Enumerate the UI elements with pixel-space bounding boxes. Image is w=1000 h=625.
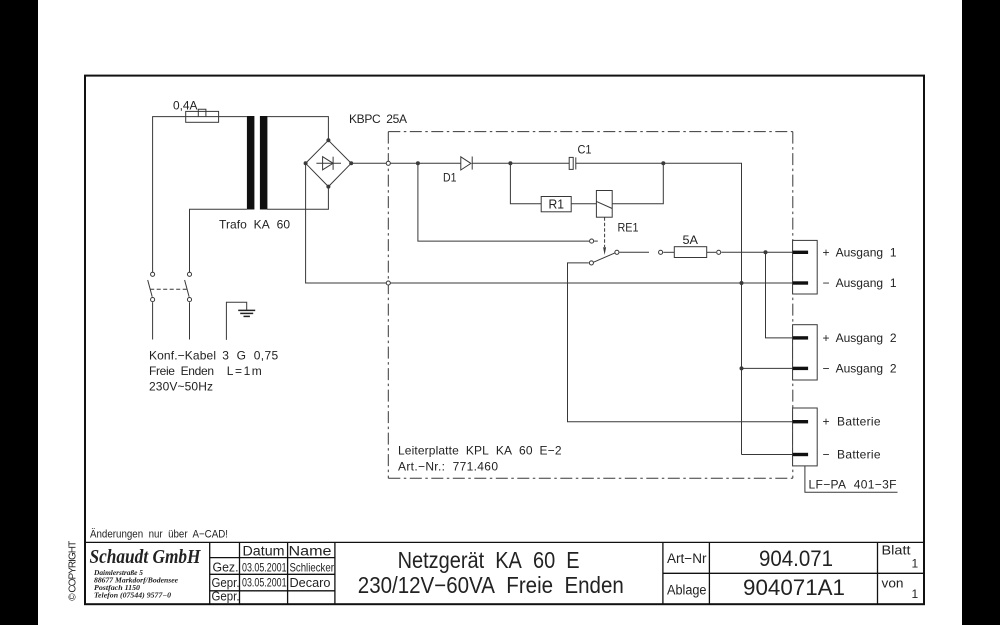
terminal pin minus Ausgang 1: [793, 281, 809, 284]
PCB terminal circle minus rail: [386, 281, 390, 285]
diode D1 triangle: [461, 157, 471, 170]
capacitor C1 left plate: [569, 157, 573, 169]
wire: plus node down to plus Ausgang 2: [766, 252, 793, 338]
PCB terminal circle plus input: [386, 161, 390, 165]
terminal block 3 body: [793, 408, 818, 466]
svg-text:3 G 0,75: 3 G 0,75: [222, 349, 278, 363]
svg-text:904071A1: 904071A1: [743, 575, 845, 600]
capacitor C1 right plate: [575, 157, 577, 169]
svg-text:Konf.−Kabel: Konf.−Kabel: [149, 349, 216, 363]
svg-text:Datum: Datum: [243, 544, 285, 559]
svg-text:Leiterplatte KPL KA 60 E−2: Leiterplatte KPL KA 60 E−2: [398, 444, 562, 458]
junction dot bridge bottom: [326, 185, 330, 189]
wire: node A to D1 anode: [418, 162, 461, 164]
svg-text:03.05.2001: 03.05.2001: [242, 560, 287, 574]
svg-text:RE1: RE1: [618, 221, 639, 235]
svg-text:+ Batterie: + Batterie: [823, 415, 881, 429]
wire: mains L from fuse corner down to switch pole 1: [153, 117, 247, 272]
mains switch pole 2 lower contact: [187, 298, 191, 302]
wire: C1 right plate to node C: [576, 162, 664, 164]
wire: node B down to R1: [510, 163, 541, 203]
relay contact NO stub: [594, 240, 598, 242]
svg-text:Blatt: Blatt: [882, 544, 912, 558]
svg-text:+ Ausgang 1: + Ausgang 1: [823, 245, 897, 259]
svg-text:1: 1: [912, 587, 919, 601]
svg-text:Name: Name: [289, 544, 332, 559]
svg-text:− Batterie: − Batterie: [823, 448, 881, 462]
svg-text:904.071: 904.071: [759, 546, 833, 571]
ground symbol bar 3: [244, 315, 250, 317]
wire: switch pole 1 lower to free end: [152, 302, 154, 339]
terminal block 2 body: [793, 325, 818, 380]
wire: bridge minus output down and right along rail: [306, 163, 793, 283]
svg-text:Freie Enden: Freie Enden: [149, 364, 214, 378]
junction dot node A: [416, 161, 420, 165]
right black margin bar: [962, 0, 1000, 625]
bridge inner diode triangle: [323, 157, 334, 170]
fuse F1 0,4A body: [186, 111, 219, 122]
mains switch pole 1 lever: [148, 280, 153, 297]
svg-text:1: 1: [912, 557, 919, 571]
svg-text:0,4A: 0,4A: [173, 99, 198, 113]
svg-text:Art.−Nr.: 771.460: Art.−Nr.: 771.460: [398, 460, 498, 474]
relay coil RE1 diagonal: [596, 201, 612, 208]
relay coil RE1 body: [596, 191, 612, 218]
svg-text:LF−PA 401−3F: LF−PA 401−3F: [809, 478, 897, 492]
svg-text:Trafo KA 60: Trafo KA 60: [219, 217, 290, 231]
relay contact common circle: [615, 250, 619, 254]
wire: node C to minus drop wire: [663, 163, 741, 454]
svg-text:C1: C1: [578, 143, 592, 157]
terminal block 1 body: [793, 240, 818, 294]
junction dot minus Ausgang 2 node: [740, 366, 744, 370]
title block grid: [85, 542, 925, 604]
PCB boundary dash-dot rectangle: [388, 132, 793, 479]
wire: node C down to relay coil right: [612, 163, 663, 203]
wire: bridge plus output to node A: [351, 162, 418, 164]
mains switch dashed coupling: [150, 288, 187, 290]
svg-text:03.05.2001: 03.05.2001: [242, 575, 287, 589]
wire: relay common to fuse F2: [620, 251, 650, 253]
LF-PA callout line: [805, 466, 898, 492]
junction dot bridge right: [349, 161, 353, 165]
ground symbol bar 1: [238, 309, 255, 311]
drawing frame border: [85, 76, 924, 605]
terminal pin minus Ausgang 2: [793, 367, 809, 370]
svg-text:Art−Nr: Art−Nr: [667, 551, 707, 566]
svg-text:Telefon (07544) 9577−0: Telefon (07544) 9577−0: [94, 593, 172, 600]
relay switch lever: [594, 253, 616, 262]
wire: D1 cathode to node B: [472, 162, 569, 164]
svg-text:D1: D1: [443, 171, 457, 185]
wire: fuse F2 left lead: [663, 251, 674, 253]
wire: minus rail branch to minus Ausgang 2: [742, 367, 793, 369]
mains switch pole 1 upper contact: [151, 272, 155, 276]
wire: earth conductor to ground symbol: [226, 302, 246, 340]
mains switch pole 1 lower contact: [151, 298, 155, 302]
junction dot node B: [508, 161, 512, 165]
svg-text:von: von: [882, 575, 904, 590]
wire: fuse F2 to plus Ausgang 1: [721, 251, 792, 253]
svg-text:Schaudt GmbH: Schaudt GmbH: [90, 546, 202, 568]
wire: minus drop to minus Batterie: [742, 454, 793, 456]
relay actuator arrowhead: [603, 247, 606, 255]
svg-text:230/12V−60VA Freie Enden: 230/12V−60VA Freie Enden: [358, 572, 624, 598]
svg-text:Decaro: Decaro: [290, 575, 331, 590]
left black margin bar: [0, 0, 38, 625]
svg-text:Ablage: Ablage: [667, 582, 707, 597]
wire: transformer primary bottom to switch pole 2: [190, 209, 247, 272]
svg-text:88677 Markdorf/Bodensee: 88677 Markdorf/Bodensee: [94, 578, 178, 585]
wire: relay contact NC to battery feed: [568, 263, 793, 422]
svg-text:KBPC 25A: KBPC 25A: [349, 112, 407, 126]
svg-text:Gepr.: Gepr.: [212, 589, 240, 604]
relay actuator dashed link: [604, 217, 606, 247]
svg-text:R1: R1: [549, 198, 565, 212]
relay contact NC circle: [589, 261, 593, 265]
junction dot node C: [661, 161, 665, 165]
mains switch pole 2 lever: [185, 280, 190, 297]
ground symbol bar 2: [240, 312, 253, 314]
svg-text:L=1m: L=1m: [227, 364, 262, 378]
svg-text:Gez.: Gez.: [213, 560, 239, 575]
svg-text:− Ausgang 1: − Ausgang 1: [823, 276, 897, 290]
relay contact NO circle: [590, 239, 594, 243]
mains switch pole 2 upper contact: [187, 272, 191, 276]
junction dot minus rail node: [740, 281, 744, 285]
fuse F2 5A right clip circle: [717, 250, 721, 254]
wire: fuse F2 right lead: [707, 251, 716, 253]
junction dot plus output node: [764, 250, 768, 254]
wire: switch pole 2 lower to free end: [189, 302, 191, 339]
fuse F1 0,4A bump: [198, 109, 206, 116]
bridge rectifier KBPC diamond: [306, 140, 352, 186]
diode D1 cathode bar: [471, 157, 473, 170]
svg-text:Daimlerstraße 5: Daimlerstraße 5: [93, 570, 144, 577]
bridge inner diode line: [316, 162, 341, 164]
svg-text:5A: 5A: [683, 233, 699, 247]
svg-text:© COPYRIGHT: © COPYRIGHT: [68, 541, 79, 601]
svg-text:Netzgerät KA 60 E: Netzgerät KA 60 E: [398, 547, 580, 573]
svg-text:Schliecker: Schliecker: [289, 560, 334, 574]
transformer T1 primary bar: [247, 116, 255, 210]
svg-text:+ Ausgang 2: + Ausgang 2: [823, 331, 897, 345]
terminal pin plus Ausgang 1: [793, 251, 809, 254]
svg-text:230V~50Hz: 230V~50Hz: [149, 380, 213, 394]
junction dot bridge top: [326, 138, 330, 142]
terminal pin minus Batterie: [793, 453, 809, 456]
terminal pin plus Batterie: [793, 420, 809, 423]
resistor R1 body: [541, 197, 571, 212]
wire: transformer secondary bottom to bridge AC2: [267, 187, 328, 210]
junction dot bridge left: [304, 161, 308, 165]
transformer T1 secondary bar: [260, 116, 268, 210]
wire: R1 to relay coil left: [571, 203, 596, 205]
svg-text:Postfach 1150: Postfach 1150: [94, 585, 141, 592]
fuse F2 5A left clip circle: [659, 250, 663, 254]
svg-text:Änderungen nur über A−CAD!: Änderungen nur über A−CAD!: [90, 529, 228, 541]
terminal pin plus Ausgang 2: [793, 336, 809, 339]
svg-text:− Ausgang 2: − Ausgang 2: [823, 361, 897, 375]
fuse F2 5A body: [674, 247, 706, 258]
wire: transformer secondary top to bridge AC1: [267, 117, 328, 141]
wire: node A down to relay contact NO: [418, 163, 589, 241]
bridge inner diode bar: [332, 157, 334, 170]
